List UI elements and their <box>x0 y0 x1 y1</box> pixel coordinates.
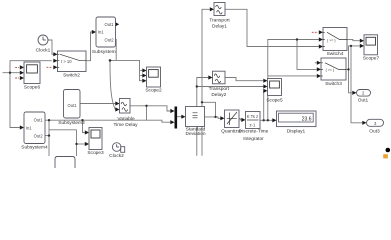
svg-text:Out1: Out1 <box>68 103 78 108</box>
svg-text:Scope6: Scope6 <box>24 85 41 91</box>
svg-text:Subsystem4: Subsystem4 <box>21 145 48 151</box>
svg-text:t > 10: t > 10 <box>61 59 72 64</box>
svg-text:Deviation: Deviation <box>186 131 206 137</box>
svg-text:Out1: Out1 <box>105 22 115 27</box>
svg-text:Clock1: Clock1 <box>36 48 51 54</box>
svg-text:Subsystem: Subsystem <box>92 49 116 55</box>
svg-text:Out2: Out2 <box>34 134 44 139</box>
svg-text:Delay2: Delay2 <box>211 92 226 98</box>
svg-text:K Ts z: K Ts z <box>247 114 258 119</box>
svg-text:Scope2: Scope2 <box>145 88 162 94</box>
svg-text:Variable: Variable <box>117 116 135 122</box>
svg-text:Scope7: Scope7 <box>363 56 380 62</box>
svg-text:Discrete-Time: Discrete-Time <box>239 129 269 135</box>
svg-text:Out1: Out1 <box>358 98 369 104</box>
svg-text:Switch2: Switch2 <box>63 72 80 78</box>
svg-text:Display1: Display1 <box>287 128 306 134</box>
svg-text:23.6: 23.6 <box>302 117 312 123</box>
svg-text:Scope3: Scope3 <box>87 150 104 156</box>
svg-text:Out2: Out2 <box>105 38 115 43</box>
svg-text:Clock2: Clock2 <box>109 153 124 159</box>
svg-text:{ >= }: { >= } <box>326 68 335 72</box>
svg-text:z-1: z-1 <box>250 123 256 128</box>
svg-text:Out3: Out3 <box>369 129 380 135</box>
svg-text:In1: In1 <box>98 30 104 35</box>
svg-text:Delay1: Delay1 <box>212 24 227 30</box>
svg-text:{ >= }: { >= } <box>327 38 336 42</box>
svg-text:Integrator: Integrator <box>243 136 264 142</box>
svg-text:Transport: Transport <box>209 86 230 92</box>
svg-text:Subsystem3: Subsystem3 <box>58 120 85 126</box>
svg-text:Transport: Transport <box>209 18 230 24</box>
svg-text:Out1: Out1 <box>34 118 44 123</box>
svg-text:Switch4: Switch4 <box>327 51 344 57</box>
svg-text:Time Delay: Time Delay <box>113 122 138 128</box>
svg-text:In1: In1 <box>26 126 32 131</box>
svg-text:Switch3: Switch3 <box>325 81 342 87</box>
svg-text:Scope5: Scope5 <box>266 98 283 104</box>
